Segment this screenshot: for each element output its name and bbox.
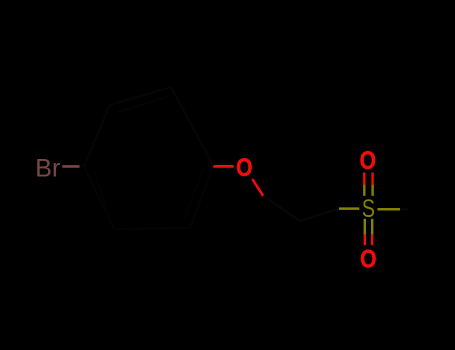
bond Br-C1 (carbon half, ghost) — [80, 165, 85, 168]
bond Br-C1 (bromine colored half) — [62, 165, 79, 168]
bond C4-O ether (oxygen colored half) — [213, 165, 233, 168]
double bond S=O (bottom), line 2 — [371, 219, 373, 235]
bond C8-C9 (carbon, ghost) — [300, 209, 339, 222]
ring inner double bonds (carbon, near-invisible) — [94, 97, 204, 219]
double bond S=O (top), line 2 — [371, 173, 373, 186]
svg-text:O: O — [236, 154, 252, 182]
benzene ring C1-C6 (carbon, near-invisible on black) — [84, 87, 213, 229]
svg-text:O: O — [360, 246, 376, 274]
svg-text:Br: Br — [35, 154, 60, 182]
svg-text:O: O — [360, 147, 376, 175]
double bond S=O (top), line 1: oxygen half red / sulfur half olive — [363, 173, 365, 186]
bond S-CH3 (sulfur colored half) — [378, 208, 401, 211]
bond O-C7 (oxygen colored half, diagonal) — [252, 179, 263, 196]
bond C7-C8 (carbon, ghost) — [263, 196, 300, 221]
bond S-CH3 (carbon end, ghost taper) — [400, 208, 408, 210]
bond C9-S (sulfur colored) — [339, 207, 359, 210]
double bond S=O (bottom), line 1: sulfur half olive / oxygen half red — [364, 219, 366, 235]
